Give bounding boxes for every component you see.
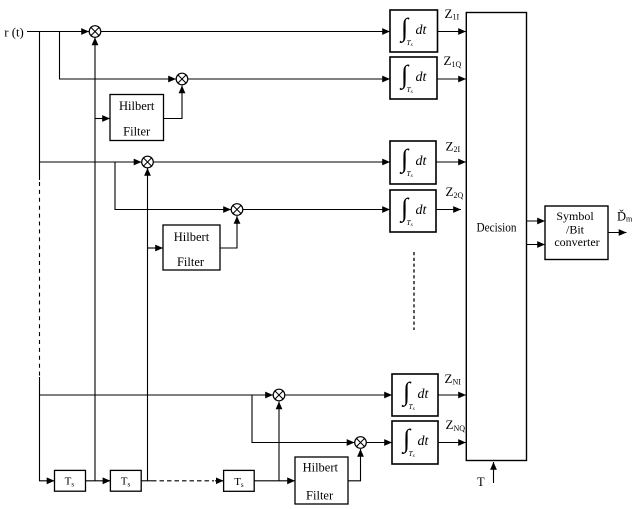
wire M3 to integrator I3 [153,161,390,163]
svg-text:Symbol: Symbol [556,209,594,223]
carrier wire 1 vertical x=95 [94,38,96,481]
integrator I4 [390,190,436,232]
wire arrow into Ts3 [215,480,224,482]
svg-text:converter: converter [554,235,599,249]
multiplier M3 [142,156,154,168]
wire I1 to decision [438,31,467,33]
svg-text:dt: dt [418,387,430,402]
wire decision to converter upper [527,220,546,222]
wire branch rowNQ from rowN down to M6 [252,395,355,443]
wire left branch x=39.5 dashed middle [39,182,41,377]
wire I2 to decision [437,78,466,80]
integrator I1 [390,10,438,52]
integrator I2 [390,57,437,99]
svg-text:Hilbert: Hilbert [119,99,155,113]
svg-text:dt: dt [416,23,428,38]
integrator I3 [390,141,436,184]
wire rowN from left branch to M5 [40,394,274,396]
wire H2 input [148,247,164,249]
Hilbert filter 1 [110,95,164,141]
integrator I5 [392,374,438,416]
wire I3 to decision [436,161,466,163]
delay Ts1 [55,470,86,491]
Hilbert filter 2 [163,225,220,270]
wire I5 to decision [438,394,466,396]
wire left branch x=39.5 solid top [39,32,41,181]
wire M1 to integrator I1 [101,31,391,33]
svg-text:dt: dt [416,70,428,85]
decision block U1 [466,13,526,461]
svg-text:dt: dt [416,203,428,218]
dotted continuation separator [413,252,415,330]
wire Ts2 to Ts3 dashed [152,480,214,482]
wire M4 to integrator I4 [243,209,391,211]
symbol/bit converter U2 [545,206,608,260]
svg-text:T: T [477,475,485,489]
wire Ts3 to H3 input [254,480,295,482]
wire I6 to decision [438,442,466,444]
carrier wire 2 vertical x=147.5 [147,168,149,481]
wire Ts1 to Ts2 [86,480,111,482]
wire row3 from left branch to M3 [40,161,142,163]
wire Ts2 to Ts3 solid stub [141,480,152,482]
wire branch row4 from row3 down to M4 [115,162,231,210]
integrator I6 [392,421,438,464]
Hilbert filter 3 [295,457,348,504]
delay Ts3 [224,470,255,491]
wire H3 output up to M6 [348,449,361,481]
svg-text:r (t): r (t) [4,24,24,39]
delay Ts2 [110,470,141,491]
svg-text:Filter: Filter [306,489,334,503]
svg-text:Decision: Decision [477,220,518,234]
multiplier M1 [89,26,101,38]
multiplier M5 [273,389,285,401]
svg-text:Hilbert: Hilbert [174,230,210,244]
wire H1 output up to M2 [164,86,183,119]
wire left branch x=39.5 bottom into Ts1 [40,377,55,481]
multiplier M4 [231,204,243,216]
wire M2 to integrator I2 [188,78,391,80]
wire H1 input [95,118,110,120]
wire M6 to integrator I6 [366,442,392,444]
wire r(t) main [27,31,89,33]
svg-text:dt: dt [416,154,428,169]
carrier wire N vertical x=279 [278,402,280,481]
svg-text:dt: dt [418,434,430,449]
wire I4 output short arrow [436,209,461,211]
wire H2 output up to M4 [220,216,237,248]
svg-text:Hilbert: Hilbert [303,461,339,475]
multiplier M2 [176,73,188,85]
multiplier M6 [355,437,367,449]
wire converter output [608,232,627,234]
wire branch x=59.5 down to row2 into multiplier M2 [60,32,177,80]
wire M5 to integrator I5 [285,394,393,396]
svg-text:Filter: Filter [123,125,151,139]
svg-text:Filter: Filter [177,255,205,269]
wire decision to converter lower [527,244,546,246]
wire T clock input [493,462,495,483]
